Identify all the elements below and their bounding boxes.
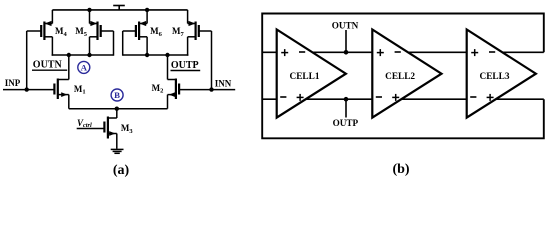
VDD supply symbol: [113, 6, 125, 11]
svg-text:INP: INP: [5, 78, 21, 88]
svg-text:M7: M7: [172, 26, 185, 38]
junction: M3 drain on tail line: [115, 107, 119, 111]
transistor M7 (PMOS): [188, 10, 212, 90]
svg-text:M2: M2: [152, 83, 164, 95]
junction: M4 gate to INP: [25, 87, 29, 91]
wire: OUTP node line: [123, 54, 189, 56]
transistor M1 (NMOS): [3, 55, 69, 109]
node OUTN stub: [344, 30, 349, 55]
svg-text:CELL1: CELL1: [290, 72, 320, 82]
transistor M5 (PMOS): [90, 10, 114, 56]
svg-text:CELL3: CELL3: [480, 72, 510, 82]
svg-text:M6: M6: [150, 26, 163, 38]
svg-text:M3: M3: [121, 123, 133, 135]
op-amp CELL3: [467, 30, 536, 118]
svg-text:Vctrl: Vctrl: [77, 118, 92, 129]
svg-text:(a): (a): [113, 163, 130, 178]
svg-text:OUTN: OUTN: [33, 60, 63, 71]
label OUTP: [171, 60, 201, 71]
svg-text:OUTP: OUTP: [333, 118, 359, 128]
junction: M2 drain on OUTP: [165, 53, 169, 57]
feedback frame: [262, 14, 544, 139]
junction: M6 drain on OUTP: [145, 53, 149, 57]
op-amp CELL2: [372, 30, 441, 118]
node OUTP stub: [344, 97, 349, 118]
svg-text:M5: M5: [75, 26, 88, 38]
svg-text:A: A: [81, 62, 88, 72]
node B: [111, 89, 123, 101]
wire: ring bottom pin line (OUTP): [262, 98, 544, 100]
label OUTN: [32, 60, 67, 71]
transistor M6 (PMOS): [123, 10, 147, 56]
svg-text:(b): (b): [392, 162, 409, 177]
svg-text:M4: M4: [55, 26, 68, 38]
wire: top supply rail: [52, 9, 187, 11]
op-amp CELL1: [277, 30, 346, 118]
svg-text:INN: INN: [215, 78, 232, 88]
svg-text:OUTN: OUTN: [332, 21, 359, 31]
wire: OUTN node line: [52, 54, 114, 56]
junction: M5 source on rail: [87, 8, 91, 12]
ground: [111, 149, 124, 153]
svg-text:OUTP: OUTP: [171, 60, 199, 71]
transistor M4 (PMOS): [27, 10, 53, 90]
svg-text:B: B: [114, 90, 120, 100]
wire: ring top pin line (OUTN): [262, 51, 544, 53]
transistor M2 (NMOS): [168, 55, 236, 109]
svg-text:CELL2: CELL2: [385, 72, 415, 82]
svg-text:M1: M1: [74, 84, 86, 96]
junction: M5 drain on OUTN: [87, 53, 91, 57]
junction: M7 gate to INN: [209, 87, 213, 91]
wire: tail node line: [69, 108, 168, 110]
transistor M3 (NMOS tail source): [77, 109, 117, 149]
junction: M1 drain on OUTN: [67, 53, 71, 57]
junction: M6 source on rail: [145, 8, 149, 12]
node A: [78, 61, 90, 73]
